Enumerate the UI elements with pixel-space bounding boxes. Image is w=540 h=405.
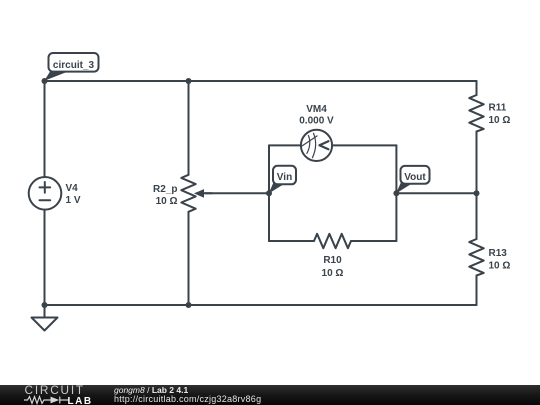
svg-text:R11: R11 bbox=[489, 103, 507, 114]
text Vin bbox=[277, 172, 292, 183]
svg-text:R13: R13 bbox=[489, 248, 508, 259]
junction dot Vin bbox=[266, 190, 272, 196]
potentiometer R2_p bbox=[181, 175, 195, 212]
label R11 value bbox=[489, 103, 511, 127]
wire Vout to right rail bbox=[396, 192, 476, 194]
svg-text:circuit_3: circuit_3 bbox=[53, 60, 95, 71]
label R2_p value bbox=[153, 184, 177, 207]
logo CIRCUIT text bbox=[25, 383, 85, 397]
junction dot top-left corner bbox=[42, 78, 48, 84]
wire wiper to Vin node bbox=[197, 192, 269, 194]
svg-text:R10: R10 bbox=[323, 255, 342, 266]
svg-text:10 Ω: 10 Ω bbox=[489, 115, 511, 126]
wire potentiometer branch upper bbox=[188, 81, 190, 175]
junction dot Vout bbox=[393, 190, 399, 196]
svg-text:Vout: Vout bbox=[404, 172, 426, 183]
wire right rail between R11 and R13 bbox=[476, 132, 478, 240]
svg-text:10 Ω: 10 Ω bbox=[156, 196, 178, 207]
svg-text:VM4: VM4 bbox=[306, 104, 327, 115]
wire bottom horizontal ground net bbox=[45, 304, 477, 306]
ground bbox=[32, 305, 58, 331]
junction dot right rail bbox=[474, 190, 480, 196]
resistor R10 bbox=[314, 234, 351, 248]
wire loop bottom right of R10 bbox=[351, 240, 396, 242]
svg-text:Vin: Vin bbox=[277, 172, 292, 183]
junction dot ground left bbox=[42, 302, 48, 308]
wire potentiometer branch lower bbox=[188, 212, 190, 305]
label R13 value bbox=[489, 248, 511, 272]
wire loop top left of VM4 bbox=[269, 144, 301, 146]
svg-text:0.000 V: 0.000 V bbox=[299, 116, 334, 127]
junction dot pot top bbox=[186, 78, 192, 84]
node label Vout bbox=[396, 166, 430, 194]
wire loop right vertical bbox=[395, 145, 397, 241]
label VM4 value bbox=[299, 104, 334, 127]
wire right rail above R11 bbox=[476, 81, 478, 95]
label R10 value bbox=[322, 255, 344, 279]
node label Vin bbox=[269, 166, 296, 194]
text circuit_3 bbox=[53, 60, 95, 71]
logo LAB text bbox=[68, 396, 93, 405]
wire loop bottom left of R10 bbox=[269, 240, 314, 242]
svg-text:V4: V4 bbox=[66, 183, 79, 194]
label V4 value bbox=[66, 183, 81, 206]
wire loop top right of VM4 bbox=[332, 144, 396, 146]
resistor R11 bbox=[469, 95, 483, 132]
svg-text:10 Ω: 10 Ω bbox=[322, 268, 344, 279]
svg-text:1 V: 1 V bbox=[66, 195, 81, 206]
svg-text:10 Ω: 10 Ω bbox=[489, 261, 511, 272]
resistor R13 bbox=[469, 239, 483, 276]
footer url line bbox=[114, 394, 261, 404]
text Vout bbox=[404, 172, 426, 183]
wire top horizontal net circuit_3 bbox=[45, 80, 477, 82]
wire left vertical below V4 bbox=[44, 209, 46, 305]
footer bar bbox=[0, 385, 540, 405]
wire right rail below R13 bbox=[476, 276, 478, 306]
voltmeter VM4 bbox=[301, 130, 332, 161]
potentiometer R2_p wiper arrow bbox=[194, 189, 212, 198]
voltage source V4 bbox=[29, 177, 62, 210]
svg-text:R2_p: R2_p bbox=[153, 184, 177, 195]
logo resistor and diode glyph bbox=[23, 395, 69, 405]
wire left vertical above V4 bbox=[44, 81, 46, 177]
footer title line bbox=[114, 385, 188, 395]
wire loop left vertical bbox=[268, 145, 270, 241]
junction dot pot bottom bbox=[186, 302, 192, 308]
node label circuit_3 bbox=[44, 53, 98, 81]
